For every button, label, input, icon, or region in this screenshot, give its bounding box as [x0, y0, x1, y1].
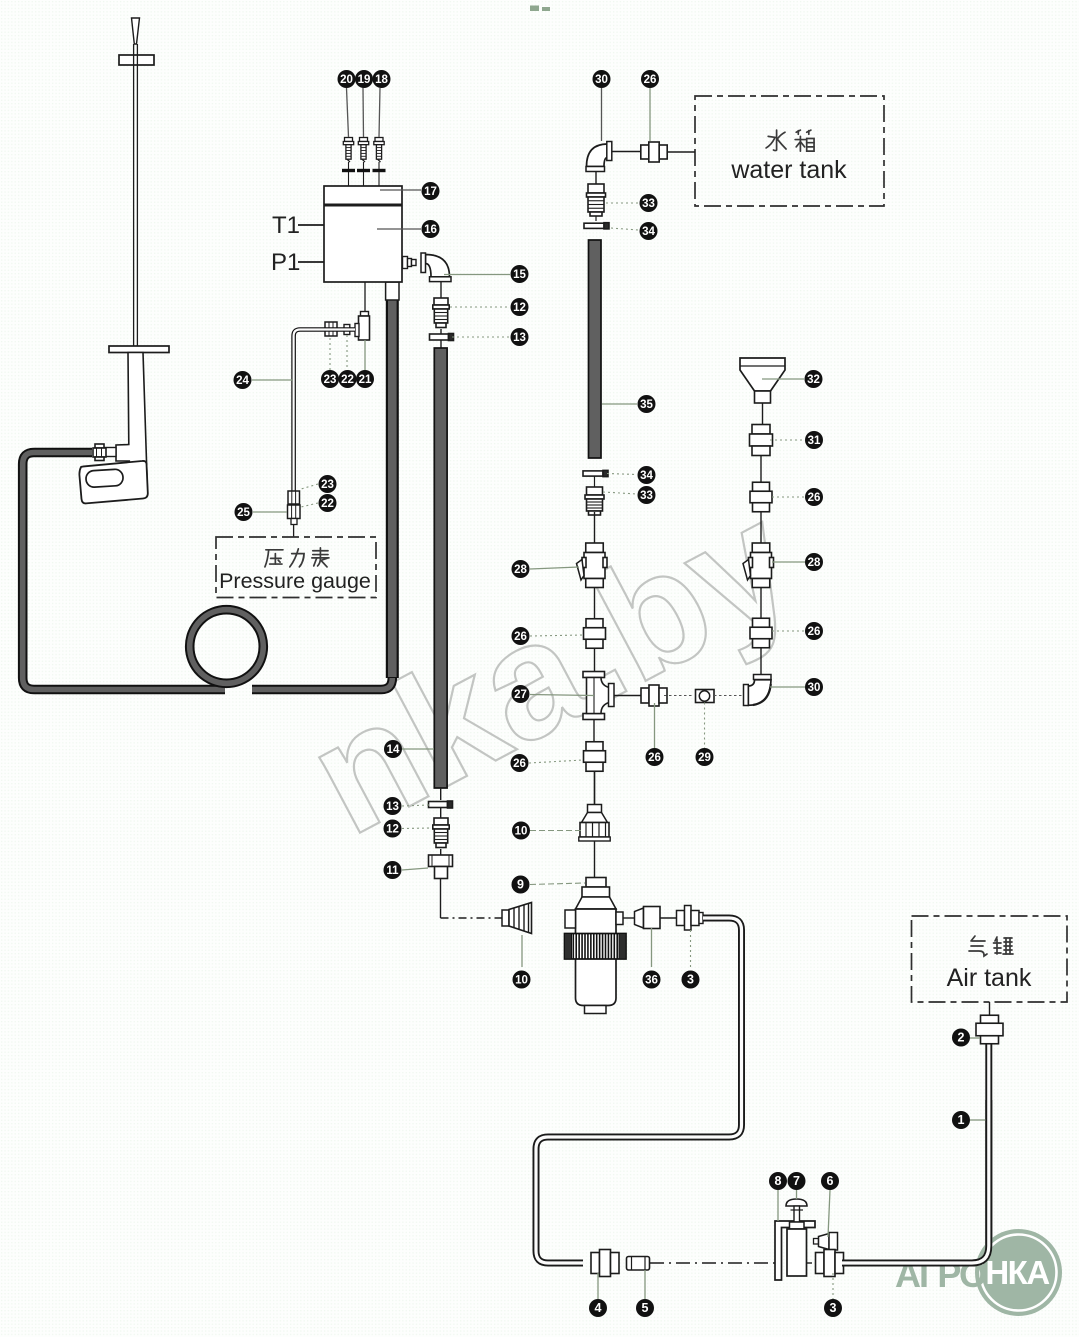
- svg-text:27: 27: [514, 689, 527, 701]
- svg-text:19: 19: [358, 74, 371, 86]
- svg-text:6: 6: [827, 1174, 834, 1188]
- svg-text:26: 26: [808, 626, 821, 638]
- svg-text:7: 7: [793, 1174, 800, 1188]
- svg-text:32: 32: [807, 374, 820, 386]
- svg-text:33: 33: [640, 490, 653, 502]
- svg-text:11: 11: [386, 865, 399, 877]
- svg-text:31: 31: [808, 435, 821, 447]
- svg-text:28: 28: [808, 557, 821, 569]
- svg-text:36: 36: [645, 975, 658, 987]
- svg-text:33: 33: [642, 198, 655, 210]
- svg-text:14: 14: [387, 744, 400, 756]
- svg-text:29: 29: [698, 752, 711, 764]
- svg-text:18: 18: [375, 74, 388, 86]
- svg-text:26: 26: [648, 752, 661, 764]
- svg-text:28: 28: [514, 564, 527, 576]
- svg-text:12: 12: [513, 302, 526, 314]
- svg-text:25: 25: [237, 507, 250, 519]
- svg-text:23: 23: [324, 374, 337, 386]
- svg-text:15: 15: [513, 269, 526, 281]
- svg-text:20: 20: [340, 74, 353, 86]
- svg-text:P1: P1: [271, 249, 300, 276]
- svg-text:12: 12: [386, 824, 399, 836]
- svg-text:НКА: НКА: [985, 1254, 1049, 1291]
- svg-text:23: 23: [321, 479, 334, 491]
- svg-text:T1: T1: [272, 212, 300, 239]
- svg-text:16: 16: [424, 224, 437, 236]
- svg-text:24: 24: [236, 375, 249, 387]
- svg-text:30: 30: [808, 682, 821, 694]
- svg-text:13: 13: [513, 332, 526, 344]
- svg-text:water tank: water tank: [730, 156, 847, 184]
- svg-text:1: 1: [958, 1113, 965, 1127]
- svg-text:30: 30: [595, 74, 608, 86]
- svg-text:4: 4: [595, 1301, 602, 1315]
- svg-text:Air tank: Air tank: [947, 964, 1032, 992]
- svg-text:13: 13: [386, 801, 399, 813]
- svg-text:35: 35: [640, 399, 653, 411]
- svg-text:26: 26: [644, 74, 657, 86]
- svg-text:26: 26: [514, 631, 527, 643]
- svg-text:34: 34: [640, 470, 653, 482]
- svg-text:3: 3: [830, 1301, 837, 1315]
- svg-text:26: 26: [513, 758, 526, 770]
- svg-text:34: 34: [642, 226, 655, 238]
- svg-text:22: 22: [341, 374, 354, 386]
- svg-text:17: 17: [424, 186, 437, 198]
- svg-text:26: 26: [808, 492, 821, 504]
- svg-text:10: 10: [515, 975, 528, 987]
- svg-text:5: 5: [642, 1301, 649, 1315]
- svg-text:3: 3: [687, 973, 694, 987]
- svg-text:2: 2: [958, 1031, 965, 1045]
- svg-text:10: 10: [515, 826, 528, 838]
- svg-text:21: 21: [359, 374, 372, 386]
- svg-text:Pressure gauge: Pressure gauge: [219, 569, 371, 593]
- svg-text:9: 9: [517, 878, 524, 892]
- svg-text:22: 22: [321, 498, 334, 510]
- svg-text:8: 8: [775, 1174, 782, 1188]
